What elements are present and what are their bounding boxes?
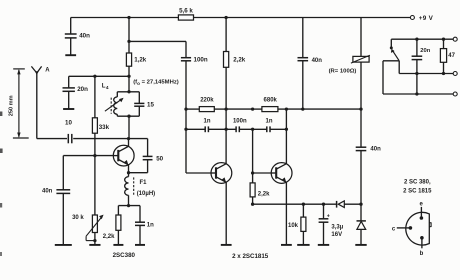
resistor 2,2k (Q1 emitter) <box>117 206 119 215</box>
wire: node41 to 100n coupling cap <box>129 40 186 42</box>
node: junction (303.4,204.2) <box>302 203 305 206</box>
svg-text:40n: 40n <box>370 146 381 152</box>
wire: contact common wire middle <box>399 73 453 75</box>
svg-text:50: 50 <box>156 156 163 163</box>
relay coil (R=100 Ohm) <box>360 18 362 57</box>
node: junction (416.9,73.5) <box>415 72 418 75</box>
resistor 10k (filter) <box>302 204 304 217</box>
svg-text:40n: 40n <box>79 33 90 40</box>
pin e (emitter) <box>420 216 424 220</box>
wire: relay contact output wire top <box>391 38 453 40</box>
wire: 33k down across antenna wire to base node <box>94 133 96 215</box>
resistor 33k (base bias upper) <box>94 76 96 118</box>
svg-text:33k: 33k <box>99 124 110 131</box>
antenna A <box>31 66 36 73</box>
wire: Q3 base lead <box>253 172 272 174</box>
node: junction (416.9,39.2) <box>415 38 418 41</box>
svg-text:2,2k: 2,2k <box>103 234 115 240</box>
capacitor 20n (contact snubber) <box>416 39 418 56</box>
node: junction tank bottom (129,116.2) <box>127 115 130 118</box>
node: junction (252.6,129.3) <box>251 128 254 131</box>
ground: below 40n lower-left <box>55 244 72 246</box>
svg-text:b: b <box>420 251 424 257</box>
node: junction (302.8,109.1) <box>301 107 304 110</box>
resistor 2,2k (Q3 base bias) <box>250 183 255 197</box>
svg-text:20n: 20n <box>77 86 88 93</box>
wire: Q1 emitter down <box>128 165 130 177</box>
capacitor 40n (base AF filter, lower left) <box>62 156 64 190</box>
node: junction (416.9,94) <box>415 92 418 95</box>
svg-text:5,6 k: 5,6 k <box>179 7 193 14</box>
svg-text:(R= 100Ω): (R= 100Ω) <box>329 69 357 75</box>
node: junction top rail x226 <box>224 16 227 19</box>
svg-text:10k: 10k <box>288 223 299 229</box>
svg-text:100n: 100n <box>233 118 247 124</box>
capacitor 40n (input bypass, top left) <box>70 18 72 35</box>
wire: vertical into tank top <box>128 76 130 92</box>
resistor 220k (Q2 feedback bias) <box>186 108 199 110</box>
arrow: L4 adjustment arrow <box>105 99 122 111</box>
svg-text:4: 4 <box>106 85 109 91</box>
wire: Q1 base wire y155.6 <box>63 155 113 157</box>
svg-text:(10µH): (10µH) <box>137 191 155 197</box>
wire: vertical 129 from rail to node41 <box>128 18 130 42</box>
potentiometer 30k (regeneration adjust) <box>92 215 97 233</box>
node: junction (129,76.3) <box>127 75 130 78</box>
node: junction emitter node (128.5,172.7) <box>127 171 130 174</box>
ground: below D2 <box>355 244 366 246</box>
terminal: contact output bottom <box>453 92 457 96</box>
node: junction top rail / 1,2k column x129 <box>127 16 130 19</box>
capacitor 40n (across relay coil branch) <box>360 109 362 147</box>
svg-text:2 x 2SC1815: 2 x 2SC1815 <box>232 253 269 260</box>
node: junction (252.6,204.2) <box>251 203 254 206</box>
inductor L4 (variable, tank coil) <box>116 92 118 97</box>
capacitor 50 (feedback trimmer) <box>147 139 149 157</box>
capacitor 100n (coupling Q1 to Q2) <box>185 41 187 57</box>
terminal: +9V supply terminal <box>410 16 414 20</box>
capacitor 40n (supply rail decoupling x302.8) <box>302 18 304 58</box>
node: junction (94.9,76.3) <box>93 75 96 78</box>
pin b (base) <box>420 236 424 240</box>
svg-text:16V: 16V <box>331 232 342 238</box>
svg-text:2,2k: 2,2k <box>258 191 270 197</box>
capacitor 1n (Q3 base-collector) <box>266 126 268 132</box>
wire: 2,2k bias column vertical <box>252 129 254 183</box>
svg-text:+9 V: +9 V <box>419 15 434 22</box>
capacitor 100n (coupling Q2 to Q3) <box>235 126 237 132</box>
resistor 1,2k (Q1 collector feed) <box>128 41 130 53</box>
node: junction Q1 collector node (128.5,138.6) <box>127 137 130 140</box>
transistor Q2 2SC1815 (AF amplifier) <box>211 163 232 184</box>
diode D2 (clamp, vertical) <box>360 204 362 221</box>
svg-text:A: A <box>45 67 50 73</box>
ground: below 40n top-left <box>65 54 76 56</box>
svg-text:2 SC 380,: 2 SC 380, <box>404 180 431 186</box>
node: junction (361,109.1) <box>359 107 362 110</box>
node: junction tank top (129,91.8) <box>127 90 130 93</box>
svg-text:+: + <box>327 214 330 220</box>
wire: Q2 base lead <box>186 172 211 174</box>
resistor 47 (contact snubber) <box>443 39 445 48</box>
node: junction (443.5,73.5) <box>442 72 445 75</box>
ground: below Q1 emitter resistor <box>113 244 123 246</box>
transistor Q3 2SC1815 (relay driver) <box>271 163 292 184</box>
scan artifact marks at left edge <box>0 112 2 117</box>
wire: between 220k and 680k columns <box>226 108 253 110</box>
wire: 20n bypass wire y76 <box>69 75 129 77</box>
svg-text:2,2k: 2,2k <box>233 57 246 64</box>
wire: arm to pivot rail <box>383 60 399 62</box>
resistor 5,6k (supply decoupling, in top rail) <box>178 15 193 20</box>
svg-text:10: 10 <box>65 120 72 127</box>
capacitor 1n (Q2 base-collector) <box>186 128 205 130</box>
inductor F1 10uH (quench choke) <box>125 177 129 196</box>
wire: detector filter wire y204.2 <box>253 203 337 205</box>
node: junction (186,129.3) <box>184 128 187 131</box>
ground: below 20n <box>63 108 74 110</box>
ground: Q2 emitter <box>221 244 232 246</box>
relay contact: fixed contact <box>390 39 392 47</box>
node: junction (443.5,39.2) <box>442 38 445 41</box>
pin c (collector) <box>409 226 413 230</box>
svg-text:F1: F1 <box>140 180 148 186</box>
node: junction (323.5,204.2) <box>322 203 325 206</box>
terminal: contact output middle <box>453 72 457 76</box>
resistor 2,2k (Q2 collector load) <box>225 18 227 52</box>
node: junction Q3 base (252.6,173) <box>251 171 254 174</box>
resistor 680k (Q3 feedback bias) <box>253 108 262 110</box>
svg-text:20n: 20n <box>420 48 430 54</box>
wire: Q2 emitter to ground <box>225 182 227 244</box>
wire: +9V top supply rail <box>71 17 411 19</box>
wire: Q1 collector to node <box>128 139 130 147</box>
capacitor 1n (Q1 emitter) <box>139 206 141 222</box>
transistor Q1 2SC380 (super-regenerative detector) <box>113 145 134 166</box>
node: junction (252.6,109.1) <box>251 107 254 110</box>
terminal: contact output top <box>453 37 457 41</box>
dimension: 250mm antenna length arrow <box>18 70 20 137</box>
wire: coupling cap to collector node and 50pF <box>73 138 147 140</box>
node: junction (226.1,109.1) <box>224 107 227 110</box>
capacitor 3,3u 16V electrolytic <box>323 204 325 218</box>
package outline: TO-92 bottom view <box>406 212 430 245</box>
wire: tank circuit bottom <box>117 115 139 117</box>
svg-text:1,2k: 1,2k <box>134 57 147 64</box>
svg-text:220k: 220k <box>200 98 214 104</box>
svg-text:(fo = 27,145MHz): (fo = 27,145MHz) <box>133 80 179 86</box>
capacitor 20n (base bias bypass) <box>68 76 70 87</box>
wire: Q3 collector node to relay coil <box>286 108 361 110</box>
wire: antenna coupling wire y138.6 <box>37 138 67 140</box>
ground: below electrolytic <box>318 244 329 246</box>
svg-text:250 mm: 250 mm <box>9 95 15 116</box>
wire: 50pF bottom to emitter node <box>129 172 148 174</box>
ground: below Q1 emitter cap <box>135 244 145 246</box>
svg-text:40n: 40n <box>312 58 323 64</box>
svg-text:1n: 1n <box>147 222 154 228</box>
ground: below 10k <box>297 244 309 246</box>
node: junction (286.4,109.1) <box>285 107 288 110</box>
svg-text:30 k: 30 k <box>72 215 84 221</box>
node: junction (226.1,129.3) <box>224 128 227 131</box>
ground: below 30k <box>89 244 100 246</box>
svg-text:2SC380: 2SC380 <box>113 252 136 259</box>
node: junction pot wiper tie (94.9,240.6) <box>93 239 96 242</box>
node: junction base node (94.9,155.6) <box>93 154 96 157</box>
capacitor 15 (tank capacitor) <box>138 92 140 103</box>
node: junction (286.4,129.3) <box>285 128 288 131</box>
diode D1 (detector, horizontal) <box>336 201 338 208</box>
capacitor 10 (antenna coupling) <box>67 134 69 143</box>
wire: contact common wire bottom <box>383 93 453 95</box>
svg-text:3,3µ: 3,3µ <box>331 224 343 230</box>
svg-text:2 SC 1815: 2 SC 1815 <box>403 188 432 194</box>
svg-text:47: 47 <box>448 53 455 59</box>
svg-text:15: 15 <box>147 101 154 108</box>
svg-text:1n: 1n <box>203 118 210 124</box>
node: junction (129,41.4) <box>127 40 130 43</box>
svg-text:100n: 100n <box>194 57 208 64</box>
svg-text:1n: 1n <box>265 118 272 124</box>
svg-text:680k: 680k <box>264 98 278 104</box>
ground: Q3 emitter <box>281 244 292 246</box>
wire: vertical Q2 base column <box>185 109 187 173</box>
wire: Q3 collector up to node <box>285 109 287 164</box>
wire: tank circuit top <box>117 91 139 93</box>
node: junction (361,204.2) <box>359 203 362 206</box>
node: junction (186,109.1) <box>184 107 187 110</box>
relay contact: movable arm <box>393 51 400 61</box>
node: junction (128.5,205.6) <box>127 204 130 207</box>
wire: emitter RC network wire <box>118 205 140 207</box>
wire: Q3 emitter to ground <box>285 182 287 244</box>
svg-text:40n: 40n <box>42 189 53 195</box>
wire: tank bottom to collector node <box>128 116 130 138</box>
